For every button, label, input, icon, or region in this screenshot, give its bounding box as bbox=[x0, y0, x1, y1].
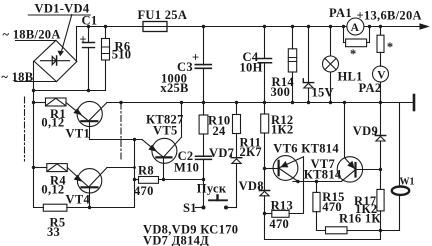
node: bus B dot HL1 bbox=[329, 101, 332, 104]
transistor VT7 emitter lead with arrow bbox=[345, 158, 356, 170]
resistor R4 wire from rail bbox=[34, 167, 47, 169]
node: dot VT6 base tap bbox=[263, 167, 266, 170]
wire: emitter bus to VT5 bbox=[90, 139, 143, 141]
svg-text:~ 18В/20А: ~ 18В/20А bbox=[3, 27, 61, 41]
transistor VT7 circle bbox=[337, 157, 362, 182]
wire: VT7 base node down to R17 bbox=[380, 170, 382, 190]
output arrow +13,6V/20A bbox=[420, 24, 428, 29]
wire: S1 right contact to VD7 column bbox=[226, 207, 237, 209]
svg-text:R16 1К: R16 1К bbox=[339, 212, 381, 226]
wire: VT6 VT7 collector wire bbox=[293, 181, 342, 183]
resistor R16 bbox=[326, 227, 348, 234]
svg-text:W1: W1 bbox=[400, 177, 415, 188]
node: bus B dot R14 bbox=[291, 101, 294, 104]
capacitor C1 plates bbox=[83, 43, 95, 48]
node: bus B dot at heatsink boundary bbox=[119, 101, 122, 104]
node: rail dot shunt right bbox=[368, 25, 371, 28]
wire: VT1 bottom lead bbox=[89, 121, 91, 139]
resistor R* voltmeter series bbox=[377, 35, 384, 52]
resistor R6 column wires bbox=[105, 27, 107, 91]
zener diode VD9 cathode bar with hook bbox=[375, 132, 385, 136]
svg-text:R8: R8 bbox=[138, 164, 154, 178]
diode VD1 inside bridge: cathode bar bbox=[56, 56, 58, 65]
transistor VT4 collector lead up-right bbox=[89, 168, 107, 187]
wire: R15 bottom to bottom wire bbox=[317, 212, 326, 231]
bridge rectifier VD1-VD4 diamond bbox=[34, 40, 77, 81]
voltmeter PA2 circle bbox=[373, 66, 389, 82]
resistor R15 top wire bbox=[316, 182, 318, 193]
dash-dot heatsink boundary left bbox=[24, 97, 26, 161]
resistor R17 bbox=[377, 189, 384, 211]
wire: VT4 collector to R8 column bbox=[107, 167, 135, 169]
svg-text:+13,6В/20А: +13,6В/20А bbox=[357, 9, 422, 23]
transistor VT4 base bar bbox=[82, 186, 98, 188]
svg-text:PA2: PA2 bbox=[359, 81, 382, 95]
node: dot VT4 collector wire at R8 column bbox=[133, 166, 136, 169]
wire: PA2 down to minus bus bbox=[380, 82, 382, 103]
resistor R5 bbox=[43, 204, 67, 211]
resistor R11 bbox=[233, 115, 241, 134]
transistor VT5 left lead with arrow bbox=[142, 140, 163, 158]
terminal bar at right end of bus B bbox=[413, 95, 416, 110]
svg-text:1К2: 1К2 bbox=[271, 123, 293, 137]
svg-text:Пуск: Пуск bbox=[197, 182, 227, 196]
wire: PA1 shunt loop bottom bbox=[344, 42, 370, 44]
zener diode VD6 15V triangle bbox=[304, 83, 313, 88]
wire: R16 right to R17 node bbox=[347, 230, 400, 232]
node: bus B dot R10 bbox=[202, 101, 205, 104]
svg-text:+: + bbox=[192, 50, 199, 64]
wire: left rail from bridge left corner down to R5 bbox=[34, 61, 44, 207]
node: dot R17 bottom bbox=[379, 229, 382, 232]
capacitor C1 wires bbox=[88, 27, 90, 91]
wire: VT7 base wire from VD9 column bbox=[356, 169, 381, 171]
resistor shunt of PA1 bbox=[346, 39, 367, 47]
resistor R1 wire from rail bbox=[34, 102, 46, 104]
svg-text:+: + bbox=[80, 33, 87, 47]
node: rail dot R14 bbox=[291, 25, 294, 28]
transistor VT1 collector lead to bus B bbox=[89, 103, 107, 121]
capacitor C4 plates bbox=[258, 59, 272, 63]
zener diode VD7 triangle bbox=[232, 159, 241, 164]
wire: input 1 to bridge top corner bbox=[16, 40, 56, 42]
zener diode VD8 triangle bbox=[260, 191, 269, 195]
diode VD1 inside bridge: triangle bbox=[52, 57, 56, 65]
capacitor C3 column wires bbox=[203, 27, 205, 103]
node: bus B dot VT5 riser bbox=[180, 101, 183, 104]
svg-text:М10: М10 bbox=[174, 160, 199, 174]
svg-text:VT5: VT5 bbox=[153, 123, 178, 137]
wire: VT6 base wire bbox=[265, 168, 279, 170]
wire: VD8 down to R13 node bbox=[264, 196, 266, 214]
svg-text:10Н: 10Н bbox=[240, 61, 263, 75]
svg-text:*: * bbox=[350, 47, 357, 61]
zener diode VD7 cathode bar with hook bbox=[231, 154, 242, 158]
node: bus B dot PA2 VD9 bbox=[379, 101, 382, 104]
transistor VT7 base bar bbox=[354, 163, 356, 177]
wire: VD9 down to VT7 base node bbox=[380, 141, 382, 170]
node: dot VT6 collector at wire bbox=[296, 180, 299, 183]
node: dot C2 bottom at wire bbox=[202, 178, 205, 181]
node: rail dot at bus A bbox=[32, 89, 35, 92]
wire: R8 right lead to VT5 base node bbox=[159, 179, 204, 181]
label arrow from VD1-VD4 to bridge diode bbox=[62, 15, 72, 51]
transistor VT1 emitter lead with arrow from R1 bbox=[66, 103, 88, 121]
resistor R11 column wire from bus B bbox=[236, 103, 238, 115]
svg-text:КТ814: КТ814 bbox=[304, 167, 342, 181]
svg-text:0,12: 0,12 bbox=[41, 182, 64, 196]
wire: top rail middle segment bbox=[167, 26, 347, 28]
wire: W1 column from bus B bbox=[399, 103, 401, 231]
svg-text:VD7: VD7 bbox=[209, 146, 234, 160]
ammeter PA1 circle bbox=[347, 18, 364, 35]
wire: riser from bridge plus (right corner) to top rail bbox=[76, 27, 78, 62]
node: dot VT4 emitter at R5 wire bbox=[88, 206, 91, 209]
pushbutton S1 bar bbox=[209, 199, 227, 201]
wire: VT4 bottom lead bbox=[89, 187, 91, 207]
transistor VT1 circle bbox=[77, 101, 102, 126]
lamp HL1 column wires bbox=[330, 27, 332, 103]
zener diode VD9 triangle bbox=[376, 136, 385, 141]
resistor R4 0,12 bbox=[47, 164, 68, 172]
node: dot R8 left bbox=[133, 178, 136, 181]
resistor R14 column wires bbox=[292, 27, 294, 103]
node: rail dot C1 bbox=[87, 25, 90, 28]
node: dot R15 top bbox=[315, 180, 318, 183]
resistor R14 bbox=[288, 49, 296, 72]
node: bus B dot R12 C4 bbox=[263, 101, 266, 104]
label underline VD1-VD4 bbox=[28, 14, 90, 16]
wire: S1 left lead bbox=[196, 207, 204, 209]
transistor VT1 base bar bbox=[81, 120, 97, 122]
wire: bus B output minus bus bbox=[107, 102, 413, 104]
wire: R13 left lead from VD8 column bbox=[265, 213, 272, 215]
resistor R10 column wire from bus B bbox=[203, 103, 205, 116]
svg-text:V: V bbox=[377, 70, 386, 82]
svg-text:S1: S1 bbox=[183, 201, 197, 215]
diode VD1 inside bridge: lead line bbox=[41, 60, 70, 62]
resistor R6 bbox=[102, 39, 110, 61]
node: bus A dot C1 bbox=[87, 89, 90, 92]
node: rail dot voltmeter column bbox=[379, 25, 382, 28]
wire: bus A bridge minus bbox=[34, 90, 106, 92]
node: rail dot C3 bbox=[202, 25, 205, 28]
svg-text:PA1: PA1 bbox=[329, 6, 352, 20]
loop W1 bbox=[392, 187, 409, 195]
svg-text:24: 24 bbox=[213, 124, 227, 138]
node: dot VT7 base at VD9 column bbox=[379, 168, 382, 171]
resistor R13 bbox=[272, 210, 289, 217]
svg-text:300: 300 bbox=[271, 85, 291, 99]
wire: R17 bottom to node bbox=[380, 211, 382, 231]
svg-text:VD8: VD8 bbox=[239, 179, 264, 193]
wire: VD7 down to S1 right contact bbox=[236, 163, 238, 207]
wire: C2 bottom to base node and S1 bbox=[203, 159, 205, 207]
fuse FU1 bbox=[143, 22, 167, 32]
transistor VT5 base bar bbox=[156, 156, 171, 158]
capacitor C4 column wires bbox=[264, 27, 266, 103]
resistor R12 bbox=[261, 114, 269, 133]
svg-text:VT4: VT4 bbox=[66, 192, 91, 206]
node: dot R13 at VD8 column bbox=[263, 212, 266, 215]
svg-text:~ 18В: ~ 18В bbox=[1, 70, 33, 84]
node: rail dot HL1 bbox=[329, 25, 332, 28]
transistor VT4 circle bbox=[77, 169, 101, 193]
node: rail dot R4 bbox=[32, 166, 35, 169]
svg-text:A: A bbox=[351, 22, 360, 34]
capacitor C3 plates bbox=[195, 65, 211, 69]
zener diode VD6 15V cathode bar with hook bbox=[303, 79, 313, 83]
wire: R13 node down and right along bottom bbox=[265, 214, 381, 240]
svg-text:0,12: 0,12 bbox=[41, 116, 64, 130]
svg-text:470: 470 bbox=[134, 184, 154, 198]
transistor VT7 collector lead bbox=[342, 170, 356, 182]
node: bus B dot VD6 bbox=[307, 101, 310, 104]
svg-text:470: 470 bbox=[269, 217, 289, 231]
node: rail dot R6 bbox=[104, 25, 107, 28]
node: rail dot R1 bbox=[32, 101, 35, 104]
transistor VT4 emitter lead with arrow from R4 bbox=[67, 168, 88, 187]
dash-dot heatsink boundary right bbox=[120, 103, 122, 161]
wire: input 2 to bridge bottom corner bbox=[15, 81, 57, 83]
wire: top rail left segment bbox=[77, 26, 144, 28]
transistor VT6 collector lead bbox=[279, 168, 298, 181]
svg-text:VD7 Д814Д: VD7 Д814Д bbox=[143, 234, 209, 246]
transistor VT5 circle bbox=[152, 138, 177, 163]
transistor VT6 base bar bbox=[278, 161, 280, 175]
wire: VD9 column from bus B bbox=[380, 103, 382, 136]
wire: VT5 base lead down bbox=[163, 157, 165, 179]
lamp HL1 circle with cross bbox=[323, 56, 339, 72]
node: S1 right contact bbox=[224, 206, 228, 210]
node: dot VT1 bottom bus at R8 column bbox=[133, 138, 136, 141]
wire: voltmeter column from rail to PA2 bbox=[380, 27, 382, 67]
resistor R12 column wire from bus B bbox=[264, 103, 266, 115]
wire: R11 bottom to VD7 bbox=[236, 134, 238, 158]
node: bus B dot R11 bbox=[235, 101, 238, 104]
wire: R8 left lead bbox=[135, 179, 139, 181]
wire: top rail right segment to output arrow bbox=[364, 26, 425, 28]
svg-text:FU1 25А: FU1 25А bbox=[138, 8, 188, 22]
transistor VT6 emitter lead with arrow bbox=[279, 157, 304, 168]
wire: PA1 shunt loop right riser bbox=[369, 27, 371, 43]
wire: PA1 shunt loop left drop bbox=[343, 27, 345, 43]
node: S1 left contact bbox=[202, 206, 206, 210]
resistor R1 0,12 bbox=[46, 98, 67, 106]
transistor VT6 circle bbox=[273, 156, 298, 181]
svg-text:*: * bbox=[387, 40, 394, 54]
wire: R5 to VT4 bottom to R8 column corner bbox=[67, 140, 135, 208]
capacitor C2 plates bbox=[196, 156, 212, 159]
wire: VT7 emitter riser to bus B bbox=[344, 103, 346, 158]
svg-text:510: 510 bbox=[112, 48, 132, 62]
node: rail dot C4 bbox=[263, 25, 266, 28]
wire: R12 bottom to VT6 base node bbox=[264, 133, 266, 169]
resistor R10 bbox=[199, 115, 208, 134]
node: dot VT5 base at wire bbox=[162, 178, 165, 181]
resistor R15 bbox=[313, 192, 320, 211]
svg-text:R13: R13 bbox=[271, 199, 293, 213]
node: bus B dot VT7 riser bbox=[343, 101, 346, 104]
node: rail dot shunt left bbox=[342, 25, 345, 28]
svg-text:VT1: VT1 bbox=[66, 126, 91, 140]
svg-text:2К7: 2К7 bbox=[240, 145, 262, 159]
wire: R10 bottom to C2 bbox=[203, 134, 205, 156]
wire: VT6 emitter down to R13 bbox=[289, 157, 303, 214]
node: rail dot VD6 bbox=[307, 25, 310, 28]
svg-text:VT6 КТ814: VT6 КТ814 bbox=[273, 141, 339, 155]
transistor VT5 right lead to riser bbox=[164, 137, 182, 157]
zener diode VD6 15V column wires bbox=[308, 27, 310, 103]
svg-text:VD9: VD9 bbox=[353, 124, 378, 138]
svg-text:x25В: x25В bbox=[160, 81, 188, 95]
wire: VT5 collector riser to bus B bbox=[181, 103, 183, 138]
resistor R8 bbox=[139, 177, 159, 184]
wire: VT6 base node down to VD8 bbox=[264, 169, 266, 191]
svg-text:15V: 15V bbox=[312, 86, 334, 100]
svg-text:C1: C1 bbox=[82, 14, 98, 28]
svg-text:33: 33 bbox=[47, 225, 60, 239]
wire: bottom right riser to R17 node bbox=[380, 231, 382, 240]
zener diode VD8 cathode bar with hook bbox=[259, 187, 269, 191]
pushbutton S1 stem bbox=[216, 195, 218, 200]
